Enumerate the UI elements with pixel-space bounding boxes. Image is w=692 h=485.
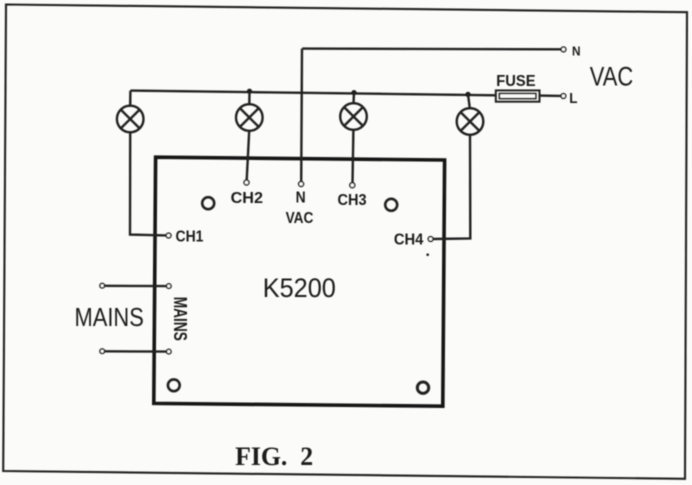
node mains upper board pin: [167, 284, 172, 289]
wire lamp2 drop to CH2: [247, 131, 250, 180]
node CH4 pin circle: [428, 237, 433, 242]
svg-text:K5200: K5200: [263, 273, 336, 303]
node CH3 pin circle: [350, 183, 355, 188]
lamp LP2: [236, 104, 263, 131]
node mains upper left terminal: [100, 283, 105, 288]
speck dot below CH4: [426, 253, 429, 256]
mounting hole bottom-left: [168, 379, 180, 391]
node mains lower left terminal: [100, 349, 105, 354]
node N terminal circle: [561, 47, 566, 52]
node N pin circle on board: [299, 182, 304, 187]
lamp LP4: [457, 108, 484, 135]
junction dot lamp3 tap: [351, 90, 356, 95]
wire lamp3 riser top: [352, 93, 355, 104]
svg-text:CH1: CH1: [176, 228, 204, 245]
svg-text:VAC: VAC: [590, 62, 633, 92]
lamp LP3: [340, 103, 367, 130]
wire L bus horizontal: [130, 91, 495, 96]
fuse F1 inner line: [499, 93, 536, 98]
wire mains upper: [105, 285, 167, 288]
svg-text:FUSE: FUSE: [496, 73, 535, 90]
mounting hole top-right: [385, 199, 397, 211]
svg-text:N: N: [296, 189, 306, 206]
wire L fuse to terminal: [540, 94, 561, 97]
wire N bus horizontal: [302, 47, 561, 50]
wire N vertical drop to VAC pin: [300, 49, 303, 182]
svg-text:CH3: CH3: [338, 192, 367, 209]
svg-text:VAC: VAC: [286, 210, 314, 227]
svg-text:CH2: CH2: [231, 190, 263, 207]
svg-text:L: L: [569, 90, 577, 107]
svg-text:FIG. 2: FIG. 2: [235, 442, 313, 471]
wire lamp2 riser top: [248, 91, 251, 104]
wire lamp4 riser top: [468, 94, 470, 108]
node mains lower board pin: [167, 349, 172, 354]
node L terminal circle: [561, 94, 566, 99]
lamp LP1: [117, 106, 144, 133]
wire lamp3 drop to CH3: [351, 130, 354, 183]
wire lamp1 drop to CH1: [130, 132, 166, 235]
fuse F1 outer body: [496, 90, 540, 101]
svg-text:MAINS: MAINS: [170, 297, 190, 341]
svg-text:MAINS: MAINS: [75, 302, 144, 332]
junction dot lamp4 tap: [465, 92, 470, 97]
wire lamp1 riser top: [129, 91, 132, 106]
node CH2 pin circle: [244, 180, 249, 185]
junction dot lamp2 tap: [247, 89, 252, 94]
node CH1 pin circle: [166, 233, 171, 238]
svg-text:CH4: CH4: [394, 232, 424, 249]
PCB board outline K5200: [154, 157, 445, 406]
mounting hole bottom-right: [417, 382, 428, 393]
wire lamp4 drop to CH4: [433, 135, 470, 239]
wire mains lower: [105, 350, 167, 353]
mounting hole top-left: [202, 197, 214, 209]
svg-text:N: N: [572, 44, 581, 59]
